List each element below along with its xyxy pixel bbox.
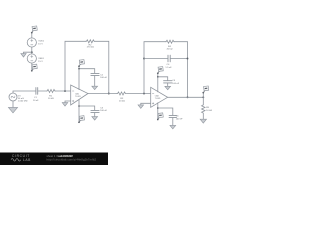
- svg-text:20 kΩ: 20 kΩ: [167, 49, 173, 51]
- wire R4 to right vertical down to output: [175, 42, 188, 98]
- resistor R1: [47, 90, 56, 93]
- wire C2 to ground: [94, 76, 96, 87]
- op-amp U1: [71, 85, 88, 105]
- svg-text:10 uF: 10 uF: [33, 100, 39, 102]
- flag VCC (op1 V+): [78, 60, 84, 67]
- op2 V- pin: [157, 103, 159, 120]
- flag VEE (op2 V-): [157, 113, 163, 120]
- wire V1 bottom to junction to V2: [31, 47, 33, 54]
- capacitor C3 (bypass V-): [91, 110, 99, 112]
- wire C5 to ground: [167, 83, 169, 86]
- labels: [18, 40, 213, 120]
- svg-text:LAB: LAB: [23, 158, 31, 162]
- svg-text:270 kΩ: 270 kΩ: [87, 47, 94, 49]
- node junction V1/V2: [31, 51, 33, 53]
- node op2 V+ bypass tap: [157, 76, 159, 78]
- wire VS to ground: [12, 101, 14, 108]
- svg-text:VDD1: VDD1: [38, 40, 45, 42]
- wire C3 to ground: [94, 113, 96, 117]
- node op2 output feedback tap: [187, 96, 189, 98]
- node op1 V+ bypass tap: [78, 68, 80, 70]
- svg-text:20 kΩ: 20 kΩ: [119, 101, 125, 103]
- svg-text:TL081: TL081: [155, 98, 162, 100]
- svg-text:100 nF: 100 nF: [172, 83, 179, 85]
- wire op2 plus input to ground: [141, 103, 151, 105]
- wire C6 to ground: [172, 118, 174, 126]
- flag VCC (op2 V+): [157, 67, 163, 74]
- feedback loop 2 left vertical: [144, 42, 166, 94]
- svg-text:TL081: TL081: [75, 96, 82, 98]
- svg-text:100 nF: 100 nF: [100, 110, 107, 112]
- flag OUT: [202, 93, 204, 98]
- svg-text:VEE1: VEE1: [38, 58, 44, 60]
- node (C4 rail left): [143, 58, 145, 60]
- wire op1 output to R3: [88, 93, 117, 95]
- wire V2 bottom to flag: [31, 63, 33, 71]
- op2 V+ pin: [157, 73, 159, 92]
- sine source VS: [9, 93, 17, 101]
- node (C4 rail right): [187, 58, 189, 60]
- svg-text:100 nF: 100 nF: [176, 118, 183, 120]
- svg-text:1.5 nF: 1.5 nF: [165, 67, 172, 69]
- wire C4 to right vertical: [170, 58, 187, 60]
- svg-text:10 kΩ: 10 kΩ: [48, 98, 54, 100]
- ground (op1 + input): [62, 103, 68, 107]
- ground (R5): [200, 119, 206, 123]
- svg-text:http://circuitlab.com/c/4hh8g2: http://circuitlab.com/c/4hh8g2b7mfb2: [47, 158, 97, 162]
- watermark bar: [0, 153, 108, 166]
- svg-text:sheet 1 / Lab4483322: sheet 1 / Lab4483322: [47, 154, 74, 158]
- wire R1 to op-amp1 minus: [56, 90, 71, 92]
- wire op1 V+ to bypass cap C2: [79, 69, 95, 74]
- node op1 V- bypass tap: [78, 105, 80, 107]
- wire C4 rail left segment: [144, 58, 168, 60]
- ground (op2 + input): [138, 105, 144, 109]
- voltage source V1: [27, 38, 36, 47]
- resistor R4 (feedback op2): [166, 40, 175, 43]
- svg-text:1.000 kHz: 1.000 kHz: [18, 100, 28, 102]
- wire junction to ground: [24, 52, 32, 53]
- resistor R5 (load, vertical): [202, 104, 205, 113]
- wire op2 V+ to bypass cap C5: [158, 77, 168, 81]
- op-amp U2: [151, 87, 168, 107]
- capacitor C5 (bypass V+): [164, 81, 172, 83]
- wire op2 V- to bypass cap C6: [158, 108, 173, 115]
- capacitor C4 (feedback cap): [168, 55, 170, 62]
- wire op2 output: [168, 96, 204, 98]
- node A (op1 inverting input): [64, 90, 66, 92]
- capacitor C1 (series input): [36, 88, 38, 95]
- ground (C6): [170, 125, 176, 128]
- feedback loop 1 left vertical: [65, 41, 86, 91]
- svg-text:15 V: 15 V: [38, 43, 43, 45]
- wire R3 to op2 minus: [127, 93, 151, 95]
- flag VEE (bottom of V2): [31, 64, 37, 71]
- node op1 output junction: [108, 93, 110, 95]
- capacitor C2 (bypass V+): [91, 73, 99, 75]
- wire output to R5: [202, 97, 204, 104]
- capacitor C6 (bypass V-): [169, 115, 176, 117]
- svg-text:15 V: 15 V: [38, 61, 43, 63]
- wire VS to input row: [13, 91, 36, 93]
- resistor R3 (interstage): [117, 92, 126, 95]
- ground (VS): [8, 107, 17, 113]
- ground (supply midpoint): [21, 54, 26, 58]
- svg-text:100 nF: 100 nF: [100, 77, 107, 79]
- wire C1 to R1: [38, 90, 47, 92]
- op1 V- pin: [78, 100, 80, 123]
- resistor R2 (feedback op1): [86, 40, 95, 43]
- wire V1 top to flag: [31, 33, 33, 38]
- voltage source V2: [27, 54, 36, 63]
- ground (C3): [92, 117, 98, 121]
- wire R5 to ground: [202, 114, 204, 119]
- ground (C5): [165, 86, 171, 90]
- wire R2 to right vertical, down to output row: [95, 41, 109, 93]
- node op2 V- bypass tap: [157, 107, 159, 109]
- flag VEE (op1 V-): [78, 116, 84, 123]
- wire op1 plus input to ground: [65, 101, 71, 103]
- ground (C2): [92, 86, 98, 90]
- node output: [202, 96, 204, 98]
- wire op1 V- to bypass cap C3: [79, 106, 95, 110]
- svg-text:10 kΩ: 10 kΩ: [206, 110, 212, 112]
- op1 V+ pin: [78, 66, 80, 89]
- node B (op2 inverting input): [143, 93, 145, 95]
- flag VCC (top): [31, 26, 37, 33]
